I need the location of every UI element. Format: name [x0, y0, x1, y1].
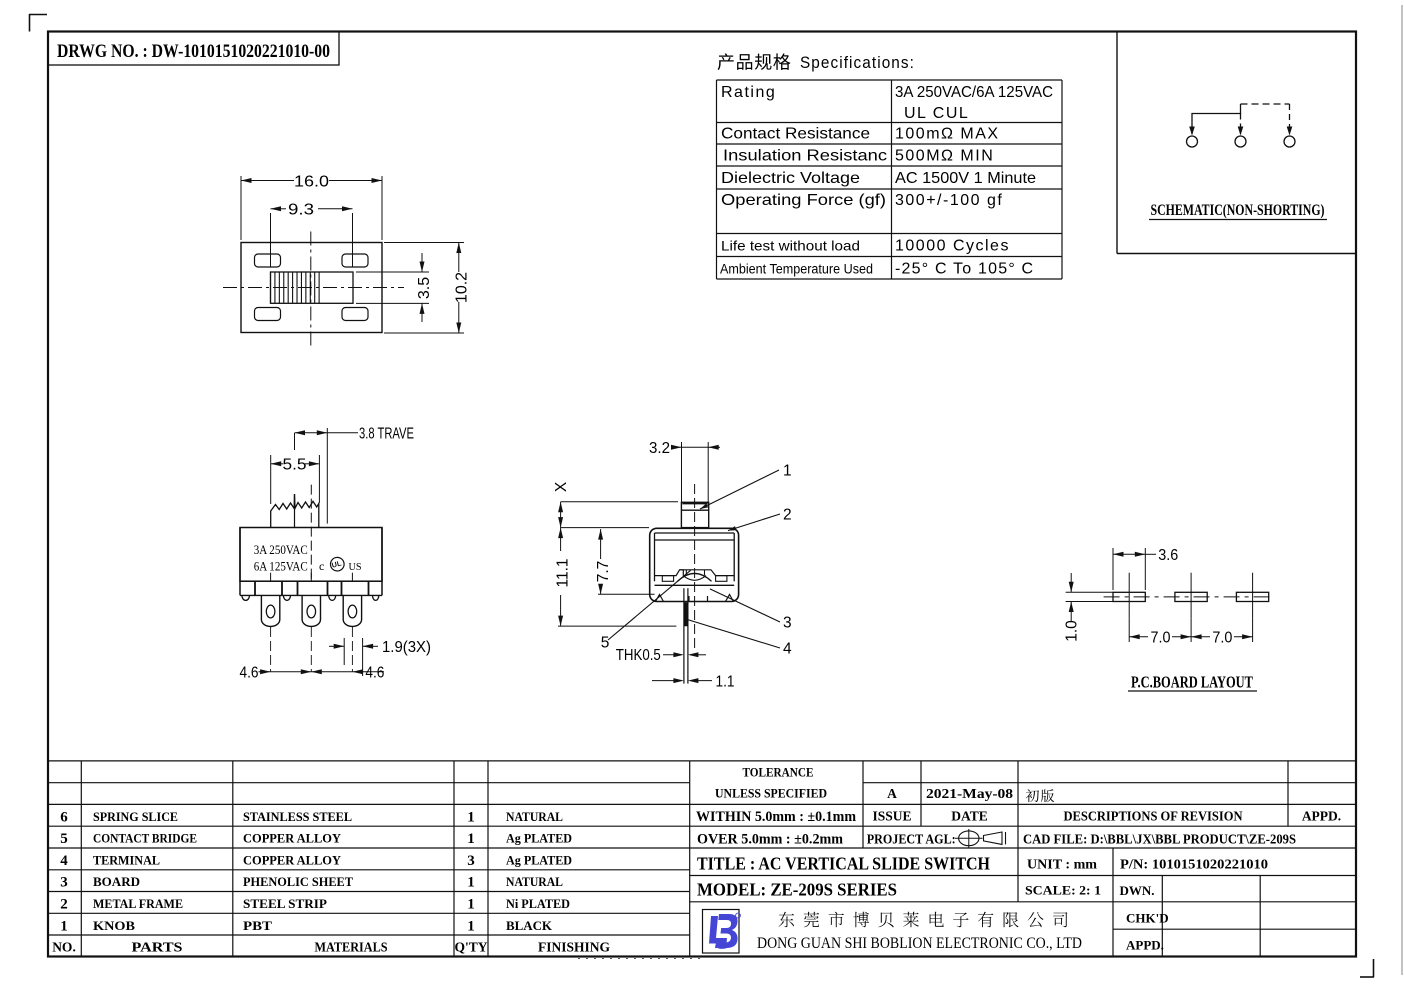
svg-text:TERMINAL: TERMINAL — [93, 852, 160, 867]
svg-text:10000 Cycles: 10000 Cycles — [895, 238, 1010, 255]
svg-text:Operating Force (gf): Operating Force (gf) — [721, 192, 886, 209]
svg-text:3.6: 3.6 — [1158, 547, 1178, 564]
svg-text:A: A — [887, 786, 897, 801]
svg-text:DWN.: DWN. — [1119, 883, 1154, 898]
svg-text:STAINLESS STEEL: STAINLESS STEEL — [243, 809, 352, 824]
svg-text:1: 1 — [783, 463, 792, 480]
svg-text:3: 3 — [60, 875, 68, 891]
svg-text:Q'TY: Q'TY — [454, 939, 487, 954]
svg-text:1: 1 — [467, 918, 475, 934]
svg-text:COPPER ALLOY: COPPER ALLOY — [243, 831, 342, 846]
svg-text:CONTACT BRIDGE: CONTACT BRIDGE — [93, 831, 197, 846]
svg-text:100mΩ MAX: 100mΩ MAX — [895, 126, 1000, 143]
svg-text:UNIT : mm: UNIT : mm — [1027, 858, 1097, 873]
svg-text:PBT: PBT — [243, 918, 272, 933]
svg-text:DATE: DATE — [951, 808, 988, 823]
svg-text:DESCRIPTIONS OF REVISION: DESCRIPTIONS OF REVISION — [1064, 808, 1243, 823]
svg-text:3.5: 3.5 — [416, 277, 433, 299]
svg-text:16.0: 16.0 — [294, 174, 329, 191]
svg-text:5: 5 — [60, 831, 68, 847]
svg-text:KNOB: KNOB — [93, 918, 135, 933]
svg-text:4: 4 — [783, 641, 792, 658]
svg-text:4: 4 — [60, 853, 68, 869]
svg-text:TOLERANCE: TOLERANCE — [743, 765, 814, 780]
svg-text:SCHEMATIC(NON-SHORTING): SCHEMATIC(NON-SHORTING) — [1151, 202, 1325, 219]
svg-text:Ag PLATED: Ag PLATED — [506, 831, 572, 846]
svg-text:3.2: 3.2 — [649, 440, 670, 457]
svg-text:300+/-100 gf: 300+/-100 gf — [895, 192, 1003, 209]
svg-text:6: 6 — [60, 809, 68, 825]
svg-text:7.0: 7.0 — [1151, 630, 1171, 647]
svg-text:1: 1 — [467, 831, 475, 847]
svg-text:3A 250VAC: 3A 250VAC — [254, 543, 308, 557]
svg-text:3: 3 — [467, 853, 475, 869]
svg-text:4.6: 4.6 — [240, 664, 259, 681]
svg-text:METAL FRAME: METAL FRAME — [93, 896, 183, 911]
svg-text:1.9(3X): 1.9(3X) — [382, 639, 431, 656]
svg-text:1: 1 — [467, 809, 475, 825]
svg-text:CHK'D: CHK'D — [1126, 911, 1169, 926]
svg-text:P.C.BOARD LAYOUT: P.C.BOARD LAYOUT — [1131, 673, 1253, 692]
svg-text:Life test without load: Life test without load — [721, 238, 860, 254]
svg-text:2021-May-08: 2021-May-08 — [926, 786, 1013, 801]
svg-text:PHENOLIC SHEET: PHENOLIC SHEET — [243, 874, 353, 889]
svg-text:STEEL STRIP: STEEL STRIP — [243, 896, 327, 911]
svg-text:ISSUE: ISSUE — [872, 808, 911, 823]
svg-text:Insulation Resistanc: Insulation Resistanc — [723, 148, 887, 165]
svg-text:1: 1 — [60, 918, 68, 934]
svg-text:6A 125VAC: 6A 125VAC — [254, 559, 308, 573]
svg-text:TITLE : AC VERTICAL SLIDE SWIT: TITLE : AC VERTICAL SLIDE SWITCH — [697, 854, 990, 874]
svg-text:1: 1 — [467, 875, 475, 891]
svg-text:1.1: 1.1 — [716, 674, 735, 691]
svg-text:7.7: 7.7 — [595, 561, 612, 583]
svg-text:-25° C To 105° C: -25° C To 105° C — [895, 261, 1034, 278]
svg-text:Contact Resistance: Contact Resistance — [721, 126, 870, 143]
svg-text:BLACK: BLACK — [506, 918, 553, 933]
svg-text:OVER 5.0mm : ±0.2mm: OVER 5.0mm : ±0.2mm — [697, 832, 843, 848]
svg-text:1.0: 1.0 — [1064, 620, 1081, 642]
svg-text:7.0: 7.0 — [1212, 630, 1232, 647]
svg-text:BOARD: BOARD — [93, 874, 140, 889]
svg-text:APPD.: APPD. — [1126, 938, 1164, 953]
svg-text:SCALE: 2: 1: SCALE: 2: 1 — [1025, 883, 1101, 898]
svg-text:5: 5 — [601, 635, 610, 652]
svg-text:2: 2 — [60, 896, 68, 912]
svg-text:P/N: 1010151020221010: P/N: 1010151020221010 — [1120, 858, 1268, 873]
svg-text:WITHIN 5.0mm : ±0.1mm: WITHIN 5.0mm : ±0.1mm — [696, 809, 856, 825]
svg-text:3: 3 — [783, 615, 792, 632]
svg-text:1: 1 — [467, 896, 475, 912]
svg-text:AC 1500V 1 Minute: AC 1500V 1 Minute — [895, 170, 1036, 187]
svg-text:SPRING SLICE: SPRING SLICE — [93, 809, 178, 824]
svg-text:THK0.5: THK0.5 — [616, 647, 661, 664]
svg-text:NATURAL: NATURAL — [506, 874, 563, 889]
svg-text:CAD FILE: D:\BBL\JX\BBL PRODUC: CAD FILE: D:\BBL\JX\BBL PRODUCT\ZE-209S — [1023, 832, 1296, 847]
svg-text:NO.: NO. — [52, 939, 76, 954]
svg-text:2: 2 — [783, 507, 792, 524]
svg-text:Ni PLATED: Ni PLATED — [506, 896, 570, 911]
svg-text:UNLESS SPECIFIED: UNLESS SPECIFIED — [715, 786, 827, 801]
svg-text:X: X — [553, 481, 570, 492]
svg-text:UL CUL: UL CUL — [904, 105, 969, 122]
svg-text:FINISHING: FINISHING — [538, 939, 610, 954]
svg-text:NATURAL: NATURAL — [506, 809, 563, 824]
svg-text:Rating: Rating — [721, 84, 776, 101]
svg-text:Ambient Temperature Used: Ambient Temperature Used — [720, 262, 873, 277]
svg-text:9.3: 9.3 — [288, 202, 314, 219]
svg-text:Specifications:: Specifications: — [800, 53, 915, 72]
svg-text:Dielectric Voltage: Dielectric Voltage — [721, 170, 860, 187]
svg-text:Ag PLATED: Ag PLATED — [506, 852, 572, 867]
svg-text:DRWG NO. : DW-1010151020221010: DRWG NO. : DW-1010151020221010-00 — [57, 41, 330, 62]
svg-text:COPPER ALLOY: COPPER ALLOY — [243, 852, 342, 867]
svg-text:3A 250VAC/6A 125VAC: 3A 250VAC/6A 125VAC — [895, 84, 1053, 101]
svg-text:MODEL: ZE-209S SERIES: MODEL: ZE-209S SERIES — [697, 880, 897, 900]
svg-text:11.1: 11.1 — [554, 558, 571, 587]
svg-text:MATERIALS: MATERIALS — [315, 939, 388, 954]
svg-text:3.8 TRAVE: 3.8 TRAVE — [359, 426, 414, 443]
svg-text:5.5: 5.5 — [283, 457, 307, 474]
svg-text:500MΩ MIN: 500MΩ MIN — [895, 148, 994, 165]
svg-text:4.6: 4.6 — [365, 664, 384, 681]
svg-text:PROJECT AGL:: PROJECT AGL: — [867, 832, 956, 847]
svg-text:DONG GUAN SHI BOBLION ELECTRON: DONG GUAN SHI BOBLION ELECTRONIC CO., LT… — [757, 935, 1082, 952]
svg-text:10.2: 10.2 — [454, 272, 471, 303]
svg-text:c: c — [319, 559, 324, 573]
svg-text:APPD.: APPD. — [1302, 808, 1341, 823]
svg-text:PARTS: PARTS — [132, 939, 183, 954]
svg-text:US: US — [349, 562, 362, 573]
